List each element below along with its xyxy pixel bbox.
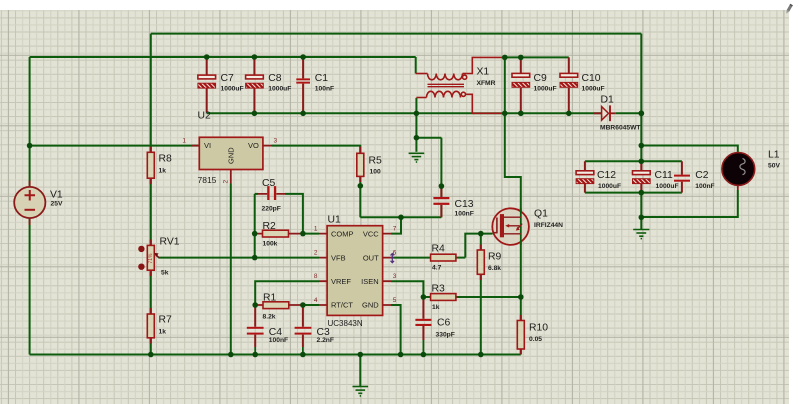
wire C5 left lead horizontal: [255, 193, 258, 195]
svg-text:VREF: VREF: [331, 277, 351, 286]
wire R9 bottom to ground rail: [480, 274, 482, 354]
svg-text:C10: C10: [582, 73, 601, 84]
wire R8 to RV1: [150, 178, 152, 245]
svg-text:R8: R8: [159, 154, 173, 165]
svg-text:UC3843N: UC3843N: [328, 319, 363, 328]
wire mid rail y113: [207, 112, 602, 114]
wire lamp return: [641, 190, 738, 217]
node C9 top: [518, 55, 524, 61]
node GND pin rail: [398, 352, 404, 358]
wire C12 top stem: [584, 161, 586, 171]
wire R9 top stub: [480, 234, 482, 250]
svg-text:100k: 100k: [263, 241, 278, 248]
node primary-right / drain: [502, 55, 508, 61]
ground symbol near transformer: [409, 153, 425, 162]
node R9 rail: [478, 352, 484, 358]
wire R10 bottom: [520, 349, 522, 355]
svg-text:R10: R10: [529, 323, 548, 334]
wire top-right rail to C10: [505, 56, 569, 58]
svg-text:2.2nF: 2.2nF: [317, 337, 334, 344]
resistor R10: [520, 315, 522, 355]
node secondary-left rail: [414, 111, 420, 117]
node lamp branch: [639, 143, 645, 149]
svg-text:C1: C1: [315, 73, 329, 84]
svg-text:C5: C5: [262, 178, 276, 189]
svg-text:C2: C2: [695, 170, 709, 181]
svg-text:25V: 25V: [51, 201, 63, 208]
svg-text:1: 1: [314, 226, 318, 233]
node C8 bottom: [252, 111, 258, 117]
wire primary-left drop: [415, 57, 417, 74]
svg-text:ISEN: ISEN: [361, 277, 379, 286]
wire output cap top rail: [585, 160, 682, 162]
wire R5 bottom drop: [359, 176, 361, 217]
svg-text:V1: V1: [50, 190, 63, 201]
wire V1 top lead: [29, 146, 31, 187]
wire R2 right node to COMP: [303, 233, 319, 235]
wire feedback top run y33.6: [151, 33, 642, 35]
svg-text:VFB: VFB: [331, 253, 346, 262]
node R1 right / RTCT: [300, 302, 306, 308]
wire C2 bottom stem: [681, 182, 683, 193]
voltage source V1: [14, 181, 45, 226]
node C4 rail: [252, 352, 258, 358]
svg-text:D1: D1: [601, 95, 615, 106]
capacitor C1: [296, 57, 310, 112]
svg-text:100nF: 100nF: [695, 183, 714, 190]
wire R3 left stub: [423, 296, 430, 298]
wire bottom ground rail: [30, 354, 521, 356]
capacitor C2: [674, 175, 690, 182]
svg-text:5: 5: [393, 297, 397, 304]
svg-text:100nF: 100nF: [455, 211, 474, 218]
wire U2 VO to R5 top: [272, 146, 361, 154]
wire R7 to ground rail: [150, 338, 152, 355]
wire ISEN pin run: [391, 281, 423, 297]
node gate / R9 top: [478, 231, 484, 237]
svg-text:RV1: RV1: [160, 237, 180, 248]
node R5 bottom: [358, 183, 364, 189]
svg-text:100nF: 100nF: [269, 337, 288, 344]
wire feedback right drop to D1 cathode node: [640, 34, 642, 114]
capacitor C13: [433, 186, 449, 217]
svg-text:VCC: VCC: [363, 229, 379, 238]
node ISEN / R3 / C6: [421, 294, 427, 300]
svg-text:R2: R2: [263, 221, 277, 232]
svg-text:R1: R1: [263, 293, 277, 304]
wire C5 right column: [285, 194, 303, 234]
svg-text:1000uF: 1000uF: [221, 86, 244, 93]
capacitor C3: [295, 305, 312, 355]
wire ground stem GND1: [359, 355, 361, 387]
svg-text:1000uF: 1000uF: [656, 183, 679, 190]
svg-text:VO: VO: [248, 141, 259, 150]
svg-text:1k: 1k: [432, 304, 440, 311]
svg-text:C8: C8: [268, 73, 282, 84]
wire D1 cathode to output column: [616, 112, 642, 114]
capacitor C6: [415, 299, 431, 355]
svg-text:C9: C9: [534, 73, 548, 84]
svg-text:R3: R3: [432, 284, 446, 295]
svg-text:OUT: OUT: [363, 253, 379, 262]
node D1 cathode: [638, 110, 644, 116]
node C1 top: [300, 54, 306, 60]
capacitor C11: [633, 161, 651, 192]
svg-text:U1: U1: [328, 215, 342, 226]
svg-text:220pF: 220pF: [262, 206, 281, 213]
probe marker at OUT pin: [391, 254, 395, 263]
svg-text:6: 6: [393, 250, 397, 257]
transistor Q1 IRFIZ44N mosfet: [492, 208, 529, 245]
capacitor C10: [560, 57, 578, 112]
wire U2 GND column: [230, 184, 232, 355]
svg-text:R7: R7: [159, 315, 173, 326]
svg-text:7815: 7815: [198, 175, 217, 185]
wire output cap bottom rail: [585, 192, 682, 194]
svg-text:100nF: 100nF: [315, 86, 334, 93]
wire stem to ground GND2: [415, 138, 417, 152]
svg-text:1k: 1k: [159, 329, 167, 336]
svg-text:3: 3: [393, 273, 397, 280]
svg-text:IRFIZ44N: IRFIZ44N: [534, 222, 563, 229]
transformer X1 XFMR: [416, 57, 505, 113]
wire RT/CT run: [303, 304, 319, 306]
node R7 bottom rail: [148, 352, 154, 358]
capacitor C9: [512, 57, 530, 112]
wire output column upper: [640, 113, 642, 161]
svg-text:1000uF: 1000uF: [534, 86, 557, 93]
diode D1 MBR6045WT: [594, 105, 616, 121]
wire Q1 drain run: [505, 57, 521, 297]
resistor R1: [255, 302, 303, 309]
svg-text:1000uF: 1000uF: [598, 183, 621, 190]
svg-text:MBR6045WT: MBR6045WT: [600, 125, 641, 132]
node secondary-right pin end: [502, 111, 508, 117]
wire VCC pin drop: [391, 217, 401, 233]
node R1 left / VREF: [252, 302, 258, 308]
op-amp controller U1 UC3843N: [319, 226, 391, 316]
svg-text:3: 3: [274, 138, 278, 145]
node U2 gnd rail: [228, 352, 234, 358]
node VCC tap: [398, 215, 404, 221]
svg-text:2: 2: [314, 250, 318, 257]
wire left drop from rail to V1 node: [29, 57, 31, 146]
svg-text:R9: R9: [488, 252, 502, 263]
node V1/R8 rail: [27, 143, 33, 149]
svg-text:GND: GND: [362, 301, 379, 310]
svg-text:100: 100: [370, 169, 381, 176]
node R2 left: [252, 231, 258, 237]
wire lamp top feed: [641, 146, 738, 153]
wire VCC feed horizontal: [360, 216, 441, 218]
lamp L1: [722, 152, 755, 190]
capacitor C12: [576, 171, 594, 184]
capacitor C7: [198, 57, 216, 112]
svg-text:C12: C12: [597, 170, 616, 181]
svg-text:Q1: Q1: [534, 209, 548, 220]
svg-text:8: 8: [314, 273, 318, 280]
wire output column mid: [640, 193, 642, 218]
wire C5/R2 left column: [254, 194, 256, 258]
capacitor C5: [258, 186, 285, 200]
wire C2 top stem: [681, 161, 683, 174]
svg-text:1k: 1k: [159, 168, 167, 175]
resistor R3: [431, 294, 456, 301]
node C11 top: [639, 159, 645, 165]
pencil cursor icon: [785, 4, 793, 15]
svg-text:U2: U2: [198, 111, 212, 122]
potentiometer RV1: [138, 240, 159, 277]
wire branch to C13: [416, 137, 441, 139]
node C7 top: [204, 54, 210, 60]
svg-text:XFMR: XFMR: [477, 80, 496, 87]
wire C13 top column: [440, 138, 442, 197]
resistor R8: [150, 147, 152, 184]
svg-text:4.7: 4.7: [432, 265, 442, 272]
wire OUT pin to R4: [391, 257, 431, 259]
wire V1 bottom to ground rail: [29, 218, 31, 355]
svg-text:COMP: COMP: [331, 229, 354, 238]
resistor R5: [359, 147, 361, 182]
wire gate from R4/R9 node: [465, 234, 492, 258]
resistor R7: [150, 308, 152, 344]
svg-text:6.8k: 6.8k: [488, 265, 501, 272]
node C11 bottom: [639, 190, 645, 196]
node C6 rail: [421, 352, 427, 358]
svg-text:1: 1: [182, 138, 186, 145]
svg-text:GND: GND: [227, 147, 236, 164]
ground symbol below main rail: [353, 387, 369, 396]
wire feedback drop to R8: [150, 34, 152, 153]
svg-text:RT/CT: RT/CT: [331, 301, 353, 310]
svg-text:330pF: 330pF: [436, 332, 455, 339]
node ground stem rail: [358, 352, 364, 358]
svg-text:1000uF: 1000uF: [268, 86, 291, 93]
svg-text:VI: VI: [204, 141, 211, 150]
resistor R2: [255, 230, 303, 237]
svg-text:7: 7: [393, 226, 397, 233]
svg-text:71%: 71%: [148, 253, 154, 264]
node VFB wiper: [252, 255, 258, 261]
svg-text:C7: C7: [221, 73, 235, 84]
svg-text:2: 2: [223, 180, 230, 184]
svg-text:C11: C11: [655, 170, 674, 181]
wire VREF run: [255, 281, 319, 305]
svg-text:4: 4: [314, 297, 318, 304]
node C3 rail: [300, 352, 306, 358]
regulator U2 7815: [192, 137, 272, 183]
svg-text:R5: R5: [369, 156, 383, 167]
node ground branch: [414, 135, 420, 141]
svg-text:0.05: 0.05: [529, 336, 542, 343]
wire RV1 to R7: [150, 270, 152, 314]
wire RV1 wiper to VFB: [159, 257, 320, 259]
wire R3 right to source node: [456, 296, 521, 298]
svg-text:1000uF: 1000uF: [582, 86, 605, 93]
node C8 top: [252, 54, 258, 60]
svg-text:L1: L1: [768, 150, 780, 161]
node R2 right / COMP: [300, 231, 306, 237]
node lamp return: [639, 215, 645, 221]
wire C12 bottom stem: [584, 184, 586, 193]
svg-text:C13: C13: [455, 199, 474, 210]
wire V1 plus to U2 VI: [30, 145, 200, 147]
svg-text:8.2k: 8.2k: [263, 314, 276, 321]
resistor R4: [431, 254, 456, 261]
svg-text:X1: X1: [477, 67, 490, 78]
node C10 bottom: [566, 111, 572, 117]
node C13 top: [439, 183, 445, 189]
resistor R9: [480, 245, 482, 281]
node source / R10 top: [518, 294, 524, 300]
svg-text:C6: C6: [437, 318, 451, 329]
ground symbol at output: [633, 230, 649, 239]
node C1 bottom: [300, 111, 306, 117]
capacitor C4: [247, 305, 264, 355]
capacitor C8: [246, 57, 264, 112]
wire ground stem GND3: [640, 217, 642, 229]
wire secondary-left column: [415, 98, 417, 138]
wire R4 right to gate riser: [456, 257, 465, 259]
wire Q1 source to R10: [520, 297, 522, 321]
wire top-left input rail y57: [30, 56, 416, 58]
wire GND pin5 drop: [391, 305, 401, 355]
svg-text:R4: R4: [432, 244, 446, 255]
node C9 bottom: [518, 111, 524, 117]
wire C13 bottom to VCC rail: [440, 205, 442, 217]
svg-text:5k: 5k: [161, 270, 169, 277]
svg-text:50V: 50V: [768, 163, 780, 170]
